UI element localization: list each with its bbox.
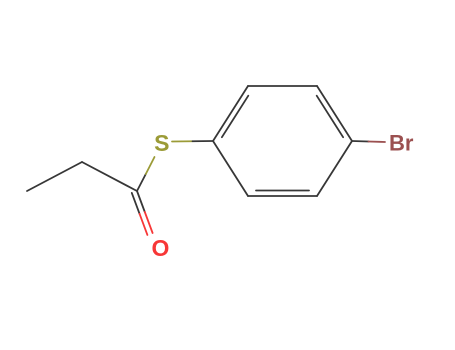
bond R-Br dark red half (369, 141, 386, 144)
ring edge R-BR (317, 141, 352, 196)
bond S-ring black half (193, 140, 214, 142)
ring edge TL-TR top (248, 85, 317, 87)
svg-text:O: O (152, 235, 170, 261)
ring edge TR-R inner double (317, 96, 343, 138)
double bond C=O line2 red half (140, 214, 148, 235)
svg-text:Br: Br (389, 131, 414, 156)
bond C-S olive half (146, 157, 155, 174)
ring edge BR-BL inner double (256, 190, 309, 192)
ring edge BL-L (213, 141, 248, 196)
wire bond CH3-CH2 (27, 162, 82, 191)
bond C-S black half (137, 174, 146, 191)
double bond C=O line1 red half (145, 212, 153, 233)
svg-text:S: S (154, 130, 169, 156)
double bond C=O line1 black half (137, 191, 145, 212)
bond R-Br black half (352, 140, 369, 143)
wire bond CH2-C(carbonyl) (82, 162, 137, 191)
ring edge TR-R outer (317, 86, 352, 141)
ring edge L-TL inner double (222, 96, 248, 138)
double bond C=O line2 black half (132, 193, 140, 214)
ring edge BR-BL bottom outer (248, 195, 317, 197)
ring edge L-TL outer (213, 86, 248, 141)
bond S-ring olive half (172, 140, 193, 142)
